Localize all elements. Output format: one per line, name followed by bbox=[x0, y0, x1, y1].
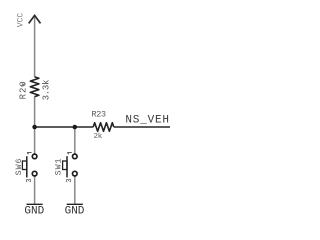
resistor R20 body bbox=[30, 77, 39, 97]
svg-text:GND: GND bbox=[65, 206, 85, 218]
junction node B bbox=[73, 125, 78, 130]
svg-text:R23: R23 bbox=[91, 110, 105, 120]
power symbol VCC arrow bbox=[29, 15, 41, 23]
junction node A bbox=[32, 125, 37, 130]
SW1 pin number 1 bbox=[67, 153, 72, 155]
switch SW1 button bbox=[63, 161, 67, 170]
SW6 contact circle pin 3 bbox=[32, 171, 37, 176]
resistor R23 body bbox=[93, 123, 114, 132]
wire SW1 pin 3 to GND bbox=[74, 176, 76, 204]
SW1 contact circle pin 3 bbox=[73, 171, 78, 176]
wire node B to SW1 pin 1 bbox=[74, 127, 76, 154]
SW6 pin number 1 bbox=[27, 153, 32, 155]
wire VCC to R20 bbox=[34, 16, 36, 77]
svg-text:3.3k: 3.3k bbox=[41, 80, 51, 100]
SW1 contact circle pin 1 bbox=[73, 154, 78, 159]
switch SW6 button bbox=[22, 161, 26, 170]
reference label R20 bbox=[19, 80, 29, 99]
svg-text:3: 3 bbox=[26, 178, 34, 182]
svg-text:3: 3 bbox=[66, 178, 74, 182]
wire R23 to net label bbox=[114, 126, 170, 128]
SW6 contact circle pin 1 bbox=[32, 154, 37, 159]
svg-text:SW6: SW6 bbox=[15, 157, 24, 175]
svg-text:2k: 2k bbox=[94, 133, 103, 141]
switch SW6 contact bar bbox=[26, 156, 28, 177]
ground symbol bar (SW6 branch) bbox=[27, 203, 43, 205]
svg-text:R20: R20 bbox=[19, 80, 29, 99]
wire R20 to SW6 pin 1 bbox=[34, 96, 36, 153]
svg-text:VCC: VCC bbox=[16, 13, 25, 28]
wire node A to R23 bbox=[35, 126, 94, 128]
svg-text:GND: GND bbox=[24, 206, 44, 218]
switch SW1 contact bar bbox=[66, 156, 68, 177]
wire SW6 pin 3 to GND bbox=[34, 176, 36, 204]
svg-text:NS_VEH: NS_VEH bbox=[125, 115, 169, 127]
svg-text:SW1: SW1 bbox=[54, 157, 63, 175]
ground symbol bar (SW1 branch) bbox=[67, 203, 83, 205]
